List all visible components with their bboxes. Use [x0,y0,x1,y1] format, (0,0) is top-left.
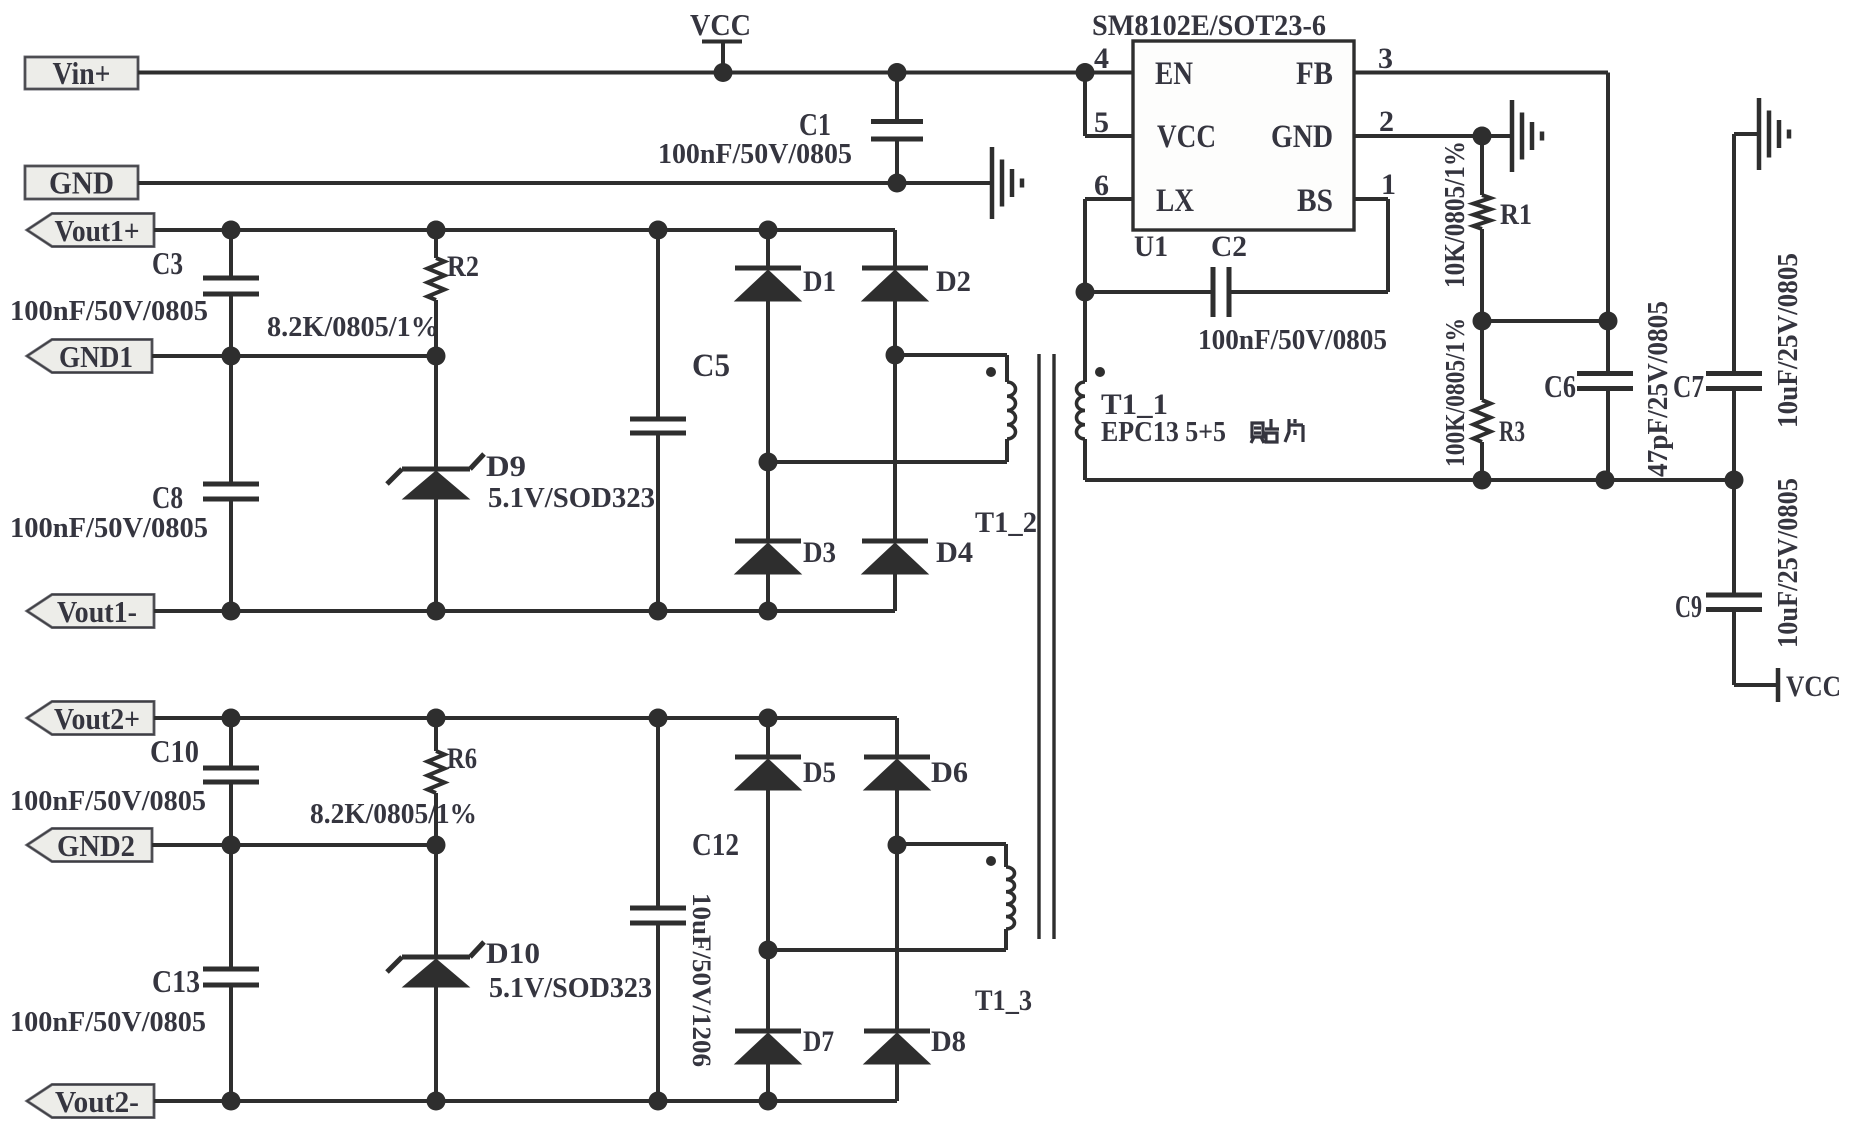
svg-text:BS: BS [1297,183,1333,219]
junction Vout2-/C12 [649,1092,668,1111]
junction C7/C9 [1725,471,1744,490]
svg-text:C10: C10 [150,733,199,769]
wire BS vertical [1386,199,1390,292]
wire C9 top lead [1732,480,1736,593]
wire Vout1+ rail [154,228,895,232]
pin number 5 [1094,106,1109,139]
wire R6 top lead [434,718,438,751]
value C12 10uF/50V/1206 [687,893,716,1067]
capacitor C7 [1706,374,1762,389]
wire pin4-pin5 tie [1083,73,1087,137]
junction Vout1+/D1 [759,221,778,240]
wire T1_3 top lead [1004,844,1008,867]
svg-text:100nF/50V/0805: 100nF/50V/0805 [1198,324,1387,356]
wire pin5 VCC [1085,134,1133,138]
label R6 [447,742,477,775]
junction GND2/D10 [427,836,446,855]
value R6 8.2K/0805/1% [310,798,477,830]
power VCC (top) [690,7,751,42]
wire D6-D8 [895,845,899,1031]
label C7 [1673,368,1704,404]
svg-text:C7: C7 [1673,368,1704,404]
svg-text:GND: GND [49,165,114,201]
svg-text:R3: R3 [1499,415,1525,448]
label C6 [1544,368,1576,404]
junction R1/R3 [1473,312,1492,331]
wire D3 top lead [766,462,770,541]
junction GND/C1 [888,174,907,193]
svg-text:C9: C9 [1675,588,1702,624]
junction Vout1+/C3 [222,221,241,240]
polarity dot T1_1 [1095,367,1105,377]
wire pin3 FB [1354,71,1608,75]
wire D5 top lead [766,718,770,757]
svg-text:5.1V/SOD323: 5.1V/SOD323 [489,972,652,1004]
svg-text:C3: C3 [152,245,183,281]
pin label LX [1156,183,1194,219]
junction Vout1-/C5 [649,602,668,621]
wire C12 bottom lead [656,925,660,1101]
diode D8 [864,1031,930,1064]
wire T1_3 bottom [768,948,1006,952]
svg-text:SM8102E/SOT23-6: SM8102E/SOT23-6 [1092,9,1326,42]
value C13 100nF/50V/0805 [10,1006,206,1038]
diode D6 [864,757,930,790]
wire Vout2+ rail [154,716,897,720]
junction GND1/C8 [222,347,241,366]
label D6 [931,756,968,789]
label C13 [152,963,200,999]
svg-text:Vout2+: Vout2+ [54,701,140,736]
junction Vout1-/C8 [222,602,241,621]
junction Vin+/C1 [888,63,907,82]
power VCC bar [1776,668,1781,702]
pin number 3 [1378,42,1393,75]
wire D1 top lead [766,230,770,268]
wire R1 top lead [1480,136,1484,195]
svg-text:D2: D2 [936,265,971,298]
resistor R1 [1474,195,1491,229]
junction Vout2-/D10 [427,1092,446,1111]
junction pin4/Vin+ [1076,63,1095,82]
wire R3 top lead [1480,321,1484,400]
wire D4 bottom lead [893,574,897,611]
wire D10 bottom lead [434,987,438,1101]
pin label BS [1297,183,1333,219]
capacitor C1 [871,122,923,140]
capacitor C8 [203,484,259,499]
value C7 10uF/25V/0805 [1773,253,1804,428]
junction Vout1-/D9 [427,602,446,621]
wire LX vertical [1083,199,1087,382]
wire C13 bottom lead [229,987,233,1101]
capacitor C5 [630,419,686,433]
svg-text:47pF/25V/0805: 47pF/25V/0805 [1643,301,1674,477]
capacitor C2 [1213,267,1229,317]
wire R2 top lead [434,230,438,258]
port GND2 [27,828,152,863]
wire C10 bottom lead [229,784,233,845]
svg-text:LX: LX [1156,183,1194,219]
svg-text:R2: R2 [447,250,479,283]
wire R6 bottom lead [434,793,438,845]
port Vout2- [27,1084,154,1119]
label D8 [931,1025,966,1058]
wire D10 top lead [434,845,438,955]
wire T1_1 top [1083,380,1087,384]
wire T1_1 bottom lead [1083,439,1087,480]
junction Vout2-/C13 [222,1092,241,1111]
svg-text:10uF/25V/0805: 10uF/25V/0805 [1773,253,1804,428]
transformer core [1039,354,1054,939]
value C9 10uF/25V/0805 [1773,478,1804,648]
wire D2 top lead [893,230,897,268]
wire C7 top lead [1732,134,1736,371]
label C9 [1675,588,1702,624]
svg-text:R1: R1 [1500,198,1532,231]
wire FB vertical [1606,73,1610,372]
wire VCC bar [702,40,742,44]
junction Vout1+/C5 [649,221,668,240]
svg-text:Vout1-: Vout1- [57,594,137,629]
wire pin6 LX [1085,197,1133,201]
junction R3/bottom rail [1473,471,1492,490]
pin label EN [1155,56,1193,92]
svg-text:10K/0805/1%: 10K/0805/1% [1440,141,1471,288]
value R1 10K/0805/1% [1440,141,1471,288]
label T1_2 [975,506,1037,539]
wire secondary bottom rail [1085,478,1734,482]
value C10 100nF/50V/0805 [10,785,206,817]
svg-text:4: 4 [1094,42,1109,75]
transformer winding T1_1 [1077,382,1086,439]
wire D5-D7 [766,790,770,950]
wire Vin+ rail [138,71,1133,75]
diode D1 [735,268,801,301]
svg-text:D5: D5 [803,756,836,789]
svg-text:C12: C12 [692,826,739,862]
svg-text:Vout2-: Vout2- [55,1084,139,1119]
transformer winding T1_2 [1007,382,1016,439]
ground (pin 2) [1512,100,1542,172]
label 贴片 [1251,419,1303,443]
value C3 100nF/50V/0805 [10,295,208,327]
capacitor C10 [203,768,259,782]
value D9 5.1V/SOD323 [488,482,655,514]
wire T1_3 bottom lead [1004,929,1008,950]
value D10 5.1V/SOD323 [489,972,652,1004]
label T1_3 [975,984,1032,1017]
label C1 [799,106,831,142]
junction Vout1+/R2 [427,221,446,240]
svg-text:100nF/50V/0805: 100nF/50V/0805 [658,138,852,170]
svg-text:T1_2: T1_2 [975,506,1037,539]
zener diode D9 [387,454,484,499]
wire VCC stub [721,42,725,73]
junction Vout1-/D3 [759,602,778,621]
label D4 [936,536,973,569]
svg-text:D4: D4 [936,536,973,569]
label C8 [152,479,183,515]
svg-text:C5: C5 [692,348,730,384]
label D2 [936,265,971,298]
wire D8 bottom lead [895,1064,899,1101]
port Vout1+ [27,213,154,248]
pin label FB [1296,56,1333,92]
pin number 2 [1379,105,1394,138]
capacitor C9 [1706,595,1762,610]
junction D1/T1_2 [759,453,778,472]
label U1 [1134,230,1168,263]
svg-text:10uF/25V/0805: 10uF/25V/0805 [1773,478,1804,648]
label SM8102E/SOT23-6 [1092,9,1326,42]
wire Vout2- rail [154,1099,897,1103]
svg-text:C13: C13 [152,963,200,999]
junction Vout2+/C10 [222,709,241,728]
wire pin1 BS [1354,197,1388,201]
wire R1R3 to FB [1482,319,1608,323]
label T1_1 [1101,388,1168,421]
wire D7 top lead [766,950,770,1031]
svg-text:D3: D3 [803,536,836,569]
resistor R2 [428,258,445,300]
junction D2/T1_2 [886,346,905,365]
svg-text:10uF/50V/1206: 10uF/50V/1206 [687,893,716,1067]
wire T1_2 top [895,353,1007,357]
junction FB/R1R3 [1599,312,1618,331]
capacitor C12 [630,908,686,923]
wire D9 top lead [434,356,438,467]
svg-text:1: 1 [1381,168,1396,201]
zener diode D10 [387,942,484,987]
wire C7 gnd stub [1734,132,1758,136]
label R1 [1500,198,1532,231]
diode D7 [735,1031,801,1064]
wire D9 bottom lead [434,499,438,611]
diode D3 [735,541,801,574]
svg-text:T1_3: T1_3 [975,984,1032,1017]
wire T1_2 bottom [768,460,1007,464]
svg-text:R6: R6 [447,742,477,775]
wire D2-D4 [893,355,897,541]
label D5 [803,756,836,789]
wire C5 top lead [656,230,660,417]
value R3 100K/0805/1% [1440,318,1470,467]
junction GND2/C13 [222,836,241,855]
junction C6/bottom rail [1596,471,1615,490]
wire C7 bottom lead [1732,391,1736,480]
svg-text:D1: D1 [803,265,836,298]
wire C13 top lead [229,845,233,967]
svg-text:D10: D10 [486,937,540,970]
wire GND rail [138,181,991,185]
value C2 100nF/50V/0805 [1198,324,1387,356]
wire D6 top lead [895,718,899,757]
label R3 [1499,415,1525,448]
wire C1 top lead [895,73,899,120]
value R2 8.2K/0805/1% [267,311,439,343]
junction pin2/R1 [1473,127,1492,146]
label D7 [803,1025,834,1058]
pin label GND [1271,119,1333,155]
wire T1_2 bottom lead [1005,439,1009,462]
svg-text:C2: C2 [1211,230,1247,263]
label C5 [692,348,730,384]
wire C8 bottom lead [229,501,233,611]
svg-text:U1: U1 [1134,230,1168,263]
wire pin2 GND [1354,134,1511,138]
svg-text:100nF/50V/0805: 100nF/50V/0805 [10,295,208,327]
wire GND1 rail [152,354,436,358]
junction D5/T1_3 [759,941,778,960]
wire C10 top lead [229,718,233,766]
wire T1_2 top lead [1005,355,1009,382]
wire T1_3 top [897,842,1006,846]
junction Vout2-/D7 [759,1092,778,1111]
wire R2 bottom lead [434,300,438,356]
op-amp U1 SM8102E body [1133,41,1354,230]
wire C2 left [1085,290,1211,294]
port GND1 [27,339,152,374]
wire D1-D3 [766,301,770,462]
label C2 [1211,230,1247,263]
wire C6 bottom lead [1606,391,1610,480]
value C6 47pF/25V/0805 [1643,301,1674,477]
svg-text:100nF/50V/0805: 100nF/50V/0805 [10,512,208,544]
svg-text:3: 3 [1378,42,1393,75]
diode D4 [862,541,928,574]
svg-text:D6: D6 [931,756,968,789]
port Vout2+ [27,701,154,736]
wire D2 bottom lead [893,301,897,355]
port Vout1- [27,594,154,629]
svg-text:VCC: VCC [1157,119,1216,155]
label D3 [803,536,836,569]
svg-text:8.2K/0805/1%: 8.2K/0805/1% [267,311,439,343]
capacitor C3 [203,278,259,294]
wire R3 bottom lead [1480,442,1484,480]
value C1 100nF/50V/0805 [658,138,852,170]
wire Vout1- rail [154,609,895,613]
capacitor C13 [203,969,259,985]
wire C5 bottom lead [656,435,660,611]
wire C3 bottom lead [229,296,233,356]
svg-text:FB: FB [1296,56,1333,92]
svg-text:D9: D9 [486,450,526,483]
ground (C7) [1759,98,1789,170]
pin label VCC [1157,119,1216,155]
wire C8 top lead [229,356,233,482]
wire D6 bottom lead [895,790,899,845]
label C10 [150,733,199,769]
wire C1 bottom lead [895,141,899,183]
label D10 [486,937,540,970]
diode D5 [735,757,801,790]
junction LX/C2 [1076,283,1095,302]
wire GND2 rail [152,843,436,847]
capacitor C6 [1577,374,1633,389]
label D9 [486,450,526,483]
svg-text:GND1: GND1 [59,339,133,374]
label R2 [447,250,479,283]
label C12 [692,826,739,862]
svg-text:EN: EN [1155,56,1193,92]
junction D6/T1_3 [888,836,907,855]
svg-text:Vin+: Vin+ [53,55,111,91]
wire R1-R3 [1480,229,1484,321]
svg-text:VCC: VCC [1786,670,1841,703]
junction Vout2+/D5 [759,709,778,728]
svg-text:EPC13 5+5: EPC13 5+5 [1101,416,1226,448]
label C3 [152,245,183,281]
value EPC13 5+5 [1101,416,1226,448]
junction GND1/D9 [427,347,446,366]
svg-text:8.2K/0805/1%: 8.2K/0805/1% [310,798,477,830]
junction Vout2+/C12 [649,709,668,728]
pin number 1 [1381,168,1396,201]
transformer winding T1_3 [1006,867,1015,929]
polarity dot T1_2 [986,367,996,377]
svg-text:D7: D7 [803,1025,834,1058]
svg-text:5.1V/SOD323: 5.1V/SOD323 [488,482,655,514]
junction Vout2+/R6 [427,709,446,728]
svg-text:100nF/50V/0805: 100nF/50V/0805 [10,1006,206,1038]
polarity dot T1_3 [986,856,996,866]
wire C12 top lead [656,718,660,906]
svg-text:C1: C1 [799,106,831,142]
wire C2 right [1231,290,1388,294]
svg-text:2: 2 [1379,105,1394,138]
port Vin+ [25,55,138,91]
svg-text:C6: C6 [1544,368,1576,404]
ground (GND rail) [992,147,1022,219]
power VCC (bottom right) [1786,670,1841,703]
wire D7 bottom lead [766,1064,770,1101]
resistor R6 [428,751,445,793]
port GND [25,165,138,201]
wire to VCC [1734,683,1777,687]
svg-text:VCC: VCC [690,7,751,42]
svg-text:100nF/50V/0805: 100nF/50V/0805 [10,785,206,817]
label D1 [803,265,836,298]
diode D2 [862,268,928,301]
wire D3 bottom lead [766,574,770,611]
svg-text:Vout1+: Vout1+ [55,213,140,248]
resistor R3 [1474,400,1491,442]
junction VCC/Vin+ [714,63,733,82]
pin number 4 [1094,42,1109,75]
svg-text:D8: D8 [931,1025,966,1058]
wire C3 top lead [229,230,233,276]
svg-text:GND: GND [1271,119,1333,155]
svg-text:100K/0805/1%: 100K/0805/1% [1440,318,1470,467]
wire C9 bottom lead [1732,612,1736,685]
value C8 100nF/50V/0805 [10,512,208,544]
svg-text:GND2: GND2 [57,828,135,863]
svg-text:C8: C8 [152,479,183,515]
pin number 6 [1094,169,1109,202]
